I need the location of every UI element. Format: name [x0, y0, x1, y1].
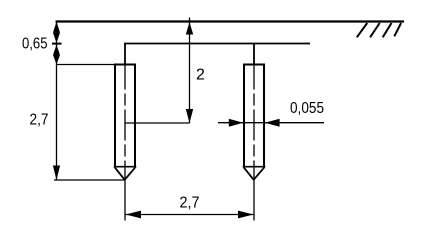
svg-text:0,65: 0,65 [22, 36, 48, 53]
dimension 0,055 leader line [218, 122, 324, 124]
dimension 2 arrow up [186, 22, 193, 35]
right pin tip extension line [253, 167, 255, 221]
right pin upper centerline stub [253, 44, 255, 65]
extension line at pin tip level [54, 179, 125, 181]
arrow down at pin tip level [53, 166, 60, 181]
dimension 0,055 arrow right [229, 119, 243, 127]
bottom dimension arrow right [238, 211, 254, 219]
left pin centerline [124, 65, 126, 168]
svg-text:2,7: 2,7 [180, 195, 200, 212]
extension line at pin top level [57, 64, 116, 66]
dimension 2 vertical line [189, 18, 191, 124]
svg-text:2: 2 [196, 66, 205, 83]
extension line from left pin centerline [126, 122, 190, 124]
dimension 0,055 arrow left [265, 119, 280, 127]
arrow down at pin top level [53, 55, 60, 65]
surface hatching [357, 23, 401, 37]
arrow up below tick bar [53, 45, 60, 55]
left pin tip extension line [124, 167, 126, 221]
tick bar at shoulder level [52, 43, 62, 45]
left pin upper centerline stub [124, 44, 126, 65]
shoulder line [124, 43, 310, 45]
arrow down at shoulder level [53, 33, 60, 43]
left pin body [114, 64, 137, 180]
svg-text:0,055: 0,055 [290, 100, 324, 117]
dimension 2 arrow down [186, 109, 193, 123]
top surface line [56, 20, 405, 22]
right pin body [243, 64, 266, 180]
bottom dimension 2,7 line [125, 214, 254, 216]
bottom dimension arrow left [126, 211, 142, 219]
right pin centerline [253, 65, 255, 168]
left dimension line (0,65 and 2,7) [56, 22, 58, 181]
svg-text:2,7: 2,7 [30, 112, 49, 129]
arrow up at top surface line [53, 22, 60, 33]
